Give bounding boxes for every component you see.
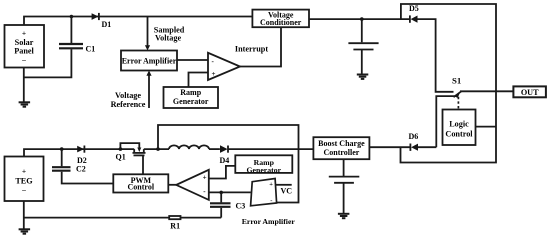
svg-text:Reference: Reference [111, 100, 146, 109]
svg-text:+: + [22, 167, 26, 176]
wire - input to VC block [209, 191, 251, 193]
svg-text:-: - [212, 58, 215, 66]
ground (battery B1) [357, 75, 369, 79]
wire solar top riser and top rail [24, 17, 253, 26]
svg-text:+: + [212, 70, 216, 78]
diode D2 [77, 146, 87, 166]
TEG box [5, 157, 44, 202]
ground (TEG) [19, 229, 31, 233]
capacitor C1 [24, 17, 95, 78]
transistor Q1 [116, 143, 146, 174]
svg-text:OUT: OUT [521, 88, 539, 97]
svg-text:+: + [203, 174, 207, 182]
diode D1 [92, 13, 112, 29]
diode D4 [220, 145, 230, 165]
ramp generator 1 box [164, 87, 219, 108]
svg-text:Interrupt: Interrupt [235, 45, 268, 54]
voltage conditioner box [252, 10, 309, 28]
diode D6 [409, 132, 419, 151]
capacitor C2 [52, 149, 113, 183]
svg-text:Q1: Q1 [116, 153, 126, 162]
svg-text:VC: VC [281, 187, 293, 196]
switch S1 [452, 76, 513, 98]
wire interrupt: comparator output up to voltage conditioner [235, 27, 281, 66]
wire sampled-voltage arrow into error amplifier [145, 17, 185, 51]
OUT box [513, 86, 546, 97]
wire solar bottom to ground [23, 68, 25, 102]
svg-text:Control: Control [128, 183, 155, 192]
svg-text:Ramp: Ramp [180, 88, 201, 97]
svg-text:C1: C1 [86, 45, 96, 54]
wire voltage conditioner output rail [309, 18, 410, 20]
ground (solar) [19, 102, 31, 106]
svg-text:C3: C3 [236, 202, 246, 211]
wire boost controller to D6 [369, 146, 410, 148]
svg-text:S1: S1 [452, 76, 461, 86]
wire TEG bottom to ground [23, 201, 25, 229]
svg-text:-: - [203, 188, 206, 196]
battery B1 [348, 19, 378, 74]
op-amp error amplifier U1 box [121, 51, 177, 71]
resistor R1 [24, 216, 221, 231]
boost charge controller box [313, 137, 369, 159]
svg-text:Logic: Logic [449, 119, 469, 128]
wire voltage reference arrow into error amplifier [111, 71, 152, 110]
ramp generator 2 box [235, 155, 292, 174]
diode D5 [409, 4, 419, 23]
svg-text:Generator: Generator [173, 97, 209, 106]
wire S1 lower terminal to D6 [436, 96, 456, 147]
svg-text:–: – [21, 55, 26, 64]
svg-text:Generator: Generator [246, 165, 281, 174]
node junction battery1 [360, 17, 364, 21]
capacitor C3 [210, 192, 245, 217]
svg-text:D1: D1 [102, 20, 112, 29]
battery B2 under boost controller [329, 159, 360, 214]
ground (battery B2) [338, 214, 350, 218]
node junction Q1 source [119, 147, 123, 151]
wire D5 to S1 upper terminal [418, 19, 454, 92]
wire TEG top riser and main rail [24, 149, 134, 156]
wire D4 to boost charge controller [228, 148, 313, 150]
svg-text:Voltage: Voltage [155, 33, 181, 42]
node junction C3 [219, 191, 223, 195]
inductor L1 [169, 145, 209, 149]
VC reference block (trapezoid) [251, 179, 293, 206]
svg-text:D5: D5 [409, 4, 419, 13]
wire ramp generator to + input [189, 73, 209, 88]
PWM control box [113, 174, 168, 192]
svg-text:Error Amplifier: Error Amplifier [242, 217, 296, 226]
svg-text:+: + [269, 181, 273, 188]
logic control box [443, 110, 476, 146]
svg-text:D6: D6 [409, 132, 419, 141]
wire EA output to comparator inverting input [177, 59, 208, 61]
svg-text:C2: C2 [76, 165, 86, 174]
node junction feedback [156, 147, 160, 151]
node junction C2 [60, 147, 64, 151]
wire dashed control line S1 to logic control [457, 97, 459, 110]
op-amp error amplifier 2 (points left) [168, 170, 295, 226]
svg-text:-: - [270, 197, 272, 204]
svg-text:Conditioner: Conditioner [260, 18, 302, 27]
wire logic control to right rail [476, 126, 497, 128]
wire outer loop right side [401, 4, 497, 163]
svg-text:Voltage: Voltage [115, 91, 141, 100]
svg-text:Boost Charge: Boost Charge [318, 139, 365, 148]
svg-text:Error Amplifier: Error Amplifier [122, 57, 177, 66]
svg-text:–: – [21, 185, 26, 194]
svg-text:+: + [22, 29, 26, 38]
node junction C1/top rail [70, 15, 74, 19]
wire VC plus terminal [276, 184, 292, 186]
solar panel PV1 box [5, 25, 45, 68]
svg-text:R1: R1 [170, 222, 180, 231]
svg-text:Controller: Controller [323, 148, 359, 157]
svg-text:Control: Control [445, 129, 473, 138]
op-amp comparator U2 [208, 53, 240, 80]
svg-text:D4: D4 [220, 156, 230, 165]
wire feedback loop to VC minus [158, 125, 299, 203]
wire ramp generator 2 to + input [209, 166, 236, 179]
